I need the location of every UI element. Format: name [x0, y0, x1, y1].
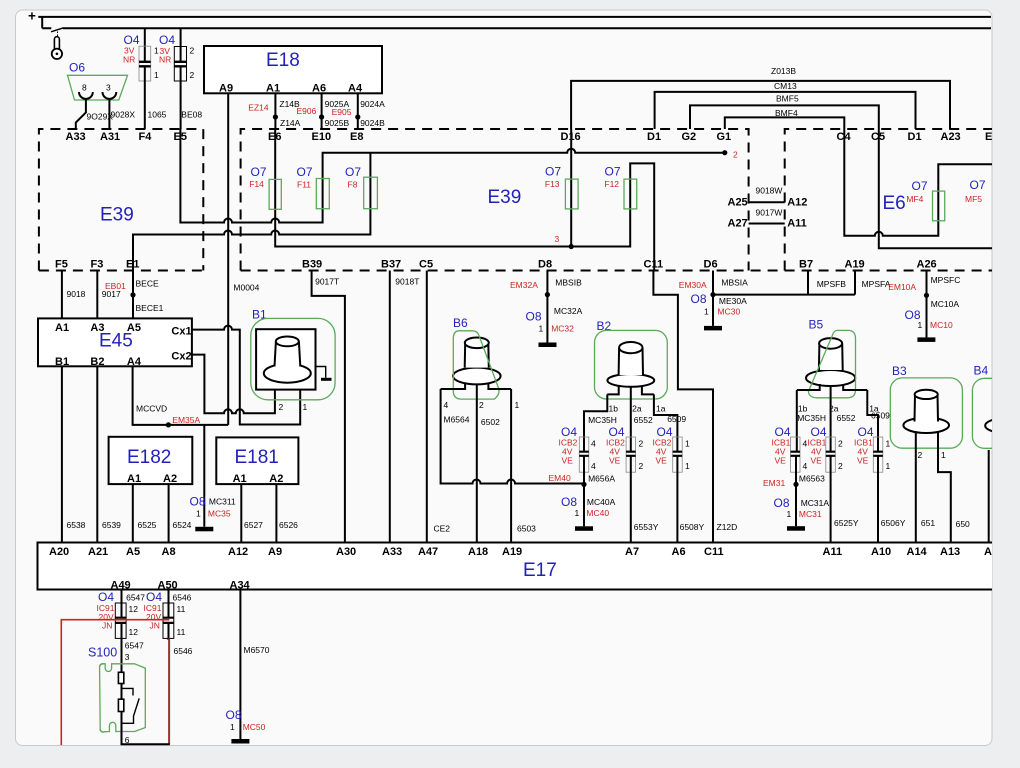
- svg-text:EM40: EM40: [549, 473, 571, 483]
- lamp B4 outline clipped: [972, 378, 1020, 448]
- wire M6563 to ground MC31: [795, 457, 797, 527]
- svg-text:A7: A7: [625, 546, 639, 558]
- wire MPSFC (A26) to ground: [926, 271, 928, 338]
- wire M0004 (A9 down): [227, 93, 229, 425]
- lamp B3 outline: [890, 378, 962, 448]
- lamp B1 outline: [251, 318, 335, 399]
- wire 6525 (E182.A1 to E17.A5): [132, 484, 134, 542]
- svg-text:2: 2: [838, 439, 843, 449]
- svg-text:E1: E1: [126, 259, 139, 271]
- wire 6526 (E181.A2 to E17.A9): [275, 484, 277, 542]
- lamp B1 inner box: [256, 329, 315, 389]
- svg-text:6527: 6527: [244, 520, 263, 530]
- control unit E18: [204, 46, 382, 93]
- svg-text:O7: O7: [251, 165, 267, 179]
- svg-text:M6570: M6570: [244, 645, 270, 655]
- svg-text:S100: S100: [88, 646, 117, 660]
- svg-text:6547: 6547: [125, 641, 144, 651]
- svg-text:B7: B7: [799, 259, 813, 271]
- svg-text:6525: 6525: [138, 520, 157, 530]
- wire 6547 lower (to S100.3): [121, 624, 123, 672]
- svg-text:4: 4: [444, 400, 449, 410]
- svg-text:MCCVD: MCCVD: [136, 404, 167, 414]
- B2 1b wire into capacitor: [584, 394, 607, 451]
- svg-text:MC35H: MC35H: [797, 413, 826, 423]
- wire 651 (B3.2 to E17.A14): [915, 432, 917, 543]
- svg-text:EM31: EM31: [763, 478, 785, 488]
- svg-text:D1: D1: [647, 131, 661, 143]
- net E1 inner: up through F8 joining E5 rail: [133, 153, 370, 271]
- wire CE2 (C5 to E17.A47): [426, 271, 428, 543]
- svg-text:A8: A8: [162, 546, 176, 558]
- net D16 inner: down through F13 to junction: [570, 129, 572, 247]
- wire 6508Y (1a to E17.A6): [676, 457, 678, 543]
- fuse O7 F13: [565, 179, 578, 209]
- svg-text:1b: 1b: [798, 403, 808, 413]
- svg-text:1: 1: [941, 450, 946, 460]
- wire EM40 (B6 pin4 to B2 drain): [441, 389, 584, 484]
- svg-text:MPSFB: MPSFB: [817, 279, 847, 289]
- key icon: [52, 37, 62, 59]
- svg-text:O7: O7: [545, 165, 561, 179]
- svg-text:1: 1: [515, 400, 520, 410]
- svg-text:Z12D: Z12D: [717, 522, 738, 532]
- svg-text:2: 2: [190, 46, 195, 56]
- svg-text:A25: A25: [728, 197, 748, 209]
- svg-text:B4: B4: [974, 364, 989, 378]
- svg-text:MC30: MC30: [718, 307, 741, 317]
- svg-text:9024A: 9024A: [360, 99, 385, 109]
- svg-text:2a: 2a: [632, 403, 642, 413]
- wire 6546 lower (dark red): [168, 624, 170, 640]
- svg-text:A13: A13: [940, 546, 960, 558]
- svg-text:Cx1: Cx1: [171, 326, 191, 338]
- svg-text:F8: F8: [348, 180, 358, 190]
- wire 9018W: [749, 201, 785, 203]
- svg-text:1: 1: [704, 307, 709, 317]
- svg-text:CE2: CE2: [434, 524, 451, 534]
- svg-text:C5: C5: [419, 259, 433, 271]
- O6 pin 3 arc: [103, 92, 117, 99]
- dashed box E39 middle: [241, 129, 749, 271]
- svg-text:O8: O8: [691, 292, 707, 306]
- svg-text:9028X: 9028X: [111, 110, 136, 120]
- S100 resistor 1: [118, 672, 123, 683]
- svg-text:A27: A27: [728, 218, 748, 230]
- svg-text:B3: B3: [892, 364, 907, 378]
- svg-text:A14: A14: [907, 546, 928, 558]
- svg-text:M656A: M656A: [588, 474, 615, 484]
- wire 9O29X: [76, 99, 86, 130]
- svg-text:E905: E905: [332, 107, 352, 117]
- svg-text:M6564: M6564: [444, 414, 470, 424]
- svg-text:6552: 6552: [634, 415, 653, 425]
- svg-text:A6: A6: [312, 83, 326, 95]
- S100 switch blade: [122, 698, 140, 723]
- svg-text:EM30A: EM30A: [679, 280, 707, 290]
- svg-text:A18: A18: [468, 546, 488, 558]
- svg-text:6503: 6503: [517, 524, 536, 534]
- wire MPSFB/MPSFA (B7,A19 to D6 junction): [713, 271, 855, 295]
- wire 9025A/9025B (A6 to E10): [321, 93, 323, 129]
- svg-text:A3: A3: [90, 322, 104, 334]
- svg-text:1: 1: [154, 70, 159, 80]
- net C5 inner: down and right: [879, 129, 992, 248]
- B5 1a wire: [867, 390, 878, 451]
- svg-text:A4: A4: [127, 356, 142, 368]
- svg-text:1: 1: [575, 508, 580, 518]
- svg-text:1: 1: [230, 722, 235, 732]
- svg-text:4: 4: [803, 461, 808, 471]
- svg-text:3: 3: [106, 83, 111, 93]
- bottom dashed rail: [39, 270, 992, 272]
- svg-text:MC311: MC311: [209, 497, 236, 507]
- svg-text:8: 8: [82, 83, 87, 93]
- svg-text:1: 1: [787, 509, 792, 519]
- svg-text:E6: E6: [883, 193, 906, 214]
- bus bar 1: [38, 16, 991, 18]
- wire BECE/BECE1 (E1 to E45.A5): [132, 271, 134, 319]
- svg-text:6547: 6547: [126, 592, 145, 602]
- svg-text:Cx2: Cx2: [171, 351, 191, 363]
- svg-text:C11: C11: [704, 546, 724, 558]
- dashed box E39 left: [39, 129, 203, 271]
- switch S100 housing: [100, 664, 146, 732]
- bus bar elbow: [41, 17, 43, 28]
- wire 6547 (E17.A49 down): [121, 590, 123, 618]
- svg-text:E39: E39: [100, 205, 134, 226]
- B2 2a wire: [630, 387, 632, 451]
- svg-text:650: 650: [956, 519, 970, 529]
- B1 internal ground: [316, 367, 326, 378]
- svg-text:6: 6: [125, 735, 130, 745]
- fuse O7 F8: [364, 177, 378, 209]
- net C4 inner: down, right, up through MF4 fuse, right: [844, 129, 992, 236]
- svg-text:1: 1: [196, 509, 201, 519]
- switch blade: [51, 28, 64, 32]
- svg-text:A1: A1: [233, 473, 247, 485]
- wire BMF5 (G2 to C5): [690, 105, 879, 129]
- svg-text:MC32: MC32: [551, 324, 574, 334]
- svg-text:F4: F4: [139, 131, 153, 143]
- wire 6538 (E45.B1 to E17.A20): [61, 366, 63, 542]
- lamp B1 bulb: [264, 337, 311, 383]
- svg-text:A31: A31: [100, 131, 120, 143]
- svg-text:9025B: 9025B: [325, 118, 350, 128]
- svg-text:VE: VE: [775, 456, 787, 466]
- svg-text:MC31A: MC31A: [801, 498, 830, 508]
- svg-text:O6: O6: [69, 61, 85, 75]
- svg-text:B2: B2: [90, 356, 104, 368]
- connector O6 trapezoid: [68, 75, 128, 100]
- svg-text:4: 4: [591, 461, 596, 471]
- svg-text:CM13: CM13: [774, 81, 797, 91]
- svg-text:VE: VE: [656, 456, 668, 466]
- svg-text:E18: E18: [266, 50, 300, 71]
- svg-text:MC35H: MC35H: [588, 415, 617, 425]
- wire Cx2 to B1 pin2: [192, 355, 275, 414]
- svg-text:1b: 1b: [609, 403, 619, 413]
- svg-text:6539: 6539: [102, 520, 121, 530]
- wire Z14B/Z14A (A1 to E6): [274, 93, 276, 129]
- svg-text:2: 2: [639, 461, 644, 471]
- svg-text:1a: 1a: [656, 403, 666, 413]
- fuse O4 (F4 feed): [144, 28, 146, 61]
- svg-text:A6: A6: [672, 546, 686, 558]
- wire M656A to ground MC40: [583, 457, 585, 527]
- wire MBSIA (D6) to ground: [712, 271, 714, 326]
- B2 1a wire: [654, 394, 678, 451]
- S100 resistor 2: [118, 699, 123, 711]
- svg-text:E182: E182: [127, 447, 171, 468]
- fuse O7 MF4: [933, 191, 945, 221]
- dashed box E6 right: [785, 129, 992, 271]
- S100 pin 6 wire: [122, 712, 170, 745]
- svg-text:2: 2: [639, 439, 644, 449]
- wire 9028X: [108, 99, 110, 130]
- svg-text:O8: O8: [526, 310, 542, 324]
- svg-text:A12: A12: [787, 197, 807, 209]
- svg-text:A33: A33: [382, 546, 402, 558]
- wire 6539 (E45.B2 to E17.A21): [96, 366, 98, 542]
- svg-text:A4: A4: [348, 83, 363, 95]
- svg-text:BECE1: BECE1: [136, 303, 164, 313]
- svg-text:B1: B1: [55, 356, 69, 368]
- wire B4 pin to E17: [988, 450, 990, 543]
- junction G1: [722, 150, 727, 155]
- wire 6502 (B6 pin2 to E17.A18): [476, 384, 478, 542]
- svg-text:6526: 6526: [279, 520, 298, 530]
- svg-text:E906: E906: [297, 106, 317, 116]
- svg-text:2: 2: [190, 70, 195, 80]
- svg-text:O7: O7: [605, 165, 621, 179]
- svg-text:C11: C11: [644, 259, 664, 271]
- svg-text:1: 1: [918, 320, 923, 330]
- svg-text:6525Y: 6525Y: [834, 518, 859, 528]
- svg-text:1065: 1065: [148, 110, 167, 120]
- wire 6527 (E181.A1 to E17.A12): [240, 484, 242, 542]
- svg-text:1: 1: [303, 402, 308, 412]
- svg-text:O4: O4: [146, 590, 162, 604]
- svg-text:MBSIA: MBSIA: [721, 277, 748, 287]
- svg-text:Z14A: Z14A: [280, 118, 301, 128]
- svg-text:G2: G2: [682, 131, 697, 143]
- wire 9024A/9024B (A4 to E8): [357, 93, 359, 129]
- S100 housing corner bumps: [100, 664, 105, 732]
- svg-text:BMF4: BMF4: [775, 108, 798, 118]
- svg-text:D8: D8: [538, 259, 552, 271]
- wire MCCVD/EM35A (E45.A4 to M0004): [133, 366, 229, 425]
- lamp B6 outline slanted: [453, 331, 499, 399]
- svg-text:651: 651: [921, 518, 935, 528]
- svg-text:1: 1: [539, 324, 544, 334]
- svg-text:E10: E10: [312, 131, 332, 143]
- net E5 inner: down, right, up through F11, right to G1: [180, 129, 724, 223]
- lamp B6 bulb: [453, 338, 501, 385]
- svg-text:4: 4: [591, 439, 596, 449]
- svg-text:D6: D6: [704, 259, 718, 271]
- svg-text:O7: O7: [345, 165, 361, 179]
- wire M6570 (E17.A34 down): [239, 590, 241, 740]
- svg-text:6508Y: 6508Y: [680, 522, 705, 532]
- B5 2a wire: [830, 386, 832, 451]
- svg-text:A2: A2: [163, 473, 177, 485]
- svg-text:6506Y: 6506Y: [881, 518, 906, 528]
- wire Z013B (D16 to A23): [571, 81, 950, 129]
- svg-text:A5: A5: [126, 546, 140, 558]
- svg-text:MC35: MC35: [208, 509, 231, 519]
- svg-text:12: 12: [129, 604, 139, 614]
- wire BMF4 (G1 to C4): [725, 117, 845, 129]
- svg-text:6552: 6552: [837, 413, 856, 423]
- svg-text:11: 11: [177, 627, 186, 637]
- fuse O4 (E5 feed): [180, 28, 182, 61]
- svg-text:G1: G1: [717, 131, 732, 143]
- svg-text:F5: F5: [55, 259, 68, 271]
- lamp B2 bulb: [607, 342, 654, 387]
- svg-text:E39: E39: [488, 187, 522, 208]
- svg-text:E8: E8: [350, 131, 363, 143]
- svg-text:F3: F3: [91, 259, 104, 271]
- svg-text:MC10A: MC10A: [931, 299, 960, 309]
- svg-text:A30: A30: [336, 546, 356, 558]
- svg-text:9024B: 9024B: [360, 118, 385, 128]
- svg-text:9017W: 9017W: [756, 208, 783, 218]
- svg-text:A1: A1: [55, 322, 69, 334]
- svg-text:MC40: MC40: [586, 508, 609, 518]
- svg-text:B6: B6: [453, 316, 468, 330]
- svg-text:NR: NR: [123, 55, 135, 65]
- svg-text:O7: O7: [912, 179, 928, 193]
- svg-text:B39: B39: [302, 259, 322, 271]
- svg-text:MF5: MF5: [965, 194, 982, 204]
- svg-text:EM10A: EM10A: [888, 282, 916, 292]
- svg-text:ME30A: ME30A: [719, 296, 747, 306]
- O6 pin 8 arc: [79, 92, 93, 99]
- wire 6524 (E182.A2 to E17.A8): [168, 484, 170, 542]
- svg-text:O8: O8: [226, 708, 242, 722]
- svg-text:JN: JN: [102, 621, 112, 631]
- svg-text:A23: A23: [941, 131, 961, 143]
- svg-text:A1: A1: [127, 473, 141, 485]
- svg-text:A5: A5: [127, 322, 141, 334]
- wire CM13 (D1 to D1): [655, 92, 916, 129]
- svg-text:11: 11: [177, 604, 186, 614]
- svg-text:A9: A9: [268, 546, 282, 558]
- svg-text:2: 2: [479, 400, 484, 410]
- svg-text:E: E: [985, 131, 992, 143]
- fuse O7 F14: [269, 179, 281, 209]
- fuse O7 F12: [624, 179, 637, 209]
- svg-text:A2: A2: [269, 473, 283, 485]
- svg-text:MPSFA: MPSFA: [862, 279, 891, 289]
- svg-text:1: 1: [685, 439, 690, 449]
- svg-text:VE: VE: [857, 456, 869, 466]
- svg-text:O4: O4: [98, 590, 114, 604]
- svg-text:1: 1: [886, 461, 891, 471]
- control unit E17: [38, 543, 998, 590]
- svg-text:B5: B5: [809, 318, 824, 332]
- svg-text:9018T: 9018T: [395, 277, 419, 287]
- B2 skirt: [607, 386, 654, 394]
- svg-text:A1: A1: [266, 83, 280, 95]
- svg-text:2: 2: [279, 402, 284, 412]
- wire 6525Y (to E17.A11): [830, 457, 832, 543]
- svg-text:F13: F13: [545, 179, 560, 189]
- lamp B5 bulb: [806, 338, 855, 386]
- svg-text:BMF5: BMF5: [776, 94, 799, 104]
- svg-text:M0004: M0004: [233, 283, 259, 293]
- svg-text:A19: A19: [845, 259, 865, 271]
- svg-text:A47: A47: [418, 546, 438, 558]
- wire to ground MC35: [203, 425, 205, 527]
- svg-text:O7: O7: [297, 165, 313, 179]
- svg-text:A11: A11: [823, 546, 843, 558]
- wire 9018 (F5 to E45.A1): [61, 271, 63, 319]
- wire 6506Y (to E17.A10): [877, 457, 879, 543]
- B5 1b wire: [796, 390, 798, 451]
- fuse O7 F11: [316, 179, 329, 209]
- svg-text:A20: A20: [49, 546, 69, 558]
- svg-text:MBSIB: MBSIB: [555, 278, 582, 288]
- wire 6546 (E17.A50 down): [168, 590, 170, 618]
- svg-text:1: 1: [685, 461, 690, 471]
- lamp B3 bulb: [903, 390, 949, 433]
- wire MBSIB (D8) to ground: [546, 271, 548, 343]
- svg-text:6538: 6538: [67, 520, 86, 530]
- svg-text:VE: VE: [609, 456, 621, 466]
- svg-text:D1: D1: [908, 131, 922, 143]
- svg-text:EM35A: EM35A: [172, 415, 200, 425]
- svg-text:B37: B37: [381, 259, 401, 271]
- svg-text:A21: A21: [88, 546, 108, 558]
- svg-text:6553Y: 6553Y: [634, 522, 659, 532]
- svg-text:E17: E17: [523, 560, 557, 581]
- wire 9017T (B39 to E17.A30): [312, 271, 345, 543]
- svg-text:9017T: 9017T: [315, 277, 339, 287]
- svg-text:JN: JN: [150, 621, 160, 631]
- svg-text:A19: A19: [502, 546, 522, 558]
- svg-text:MPSFC: MPSFC: [931, 275, 961, 285]
- svg-text:9017: 9017: [102, 289, 121, 299]
- svg-text:EZ14: EZ14: [248, 103, 269, 113]
- wire 6503 (B6 pin1 to E17.A19): [510, 389, 512, 543]
- svg-text:A26: A26: [917, 259, 937, 271]
- svg-text:6546: 6546: [174, 646, 193, 656]
- switch dotted link: [57, 32, 59, 37]
- svg-text:BE08: BE08: [181, 110, 202, 120]
- wire Cx1 to B1 pin1: [192, 326, 300, 425]
- control unit E181: [216, 437, 298, 484]
- control unit E182: [109, 437, 193, 484]
- lamp B2 outline: [595, 330, 668, 399]
- S100 contact branch: [122, 688, 134, 695]
- lamp B5 outline slanted: [808, 330, 855, 397]
- bus bar 2: [42, 27, 991, 29]
- svg-text:MC10: MC10: [930, 320, 953, 330]
- svg-text:O7: O7: [970, 178, 986, 192]
- wire 650 (B3.1 to E17.A13): [938, 432, 951, 543]
- svg-text:1: 1: [886, 439, 891, 449]
- svg-text:NR: NR: [159, 55, 171, 65]
- svg-text:Z013B: Z013B: [771, 66, 796, 76]
- wire 9018T (B37 to E17.A33): [389, 271, 391, 543]
- svg-text:A: A: [984, 546, 992, 558]
- svg-text:MF4: MF4: [906, 194, 923, 204]
- svg-text:9018: 9018: [67, 289, 86, 299]
- svg-text:O4: O4: [159, 33, 175, 47]
- svg-text:6524: 6524: [173, 520, 192, 530]
